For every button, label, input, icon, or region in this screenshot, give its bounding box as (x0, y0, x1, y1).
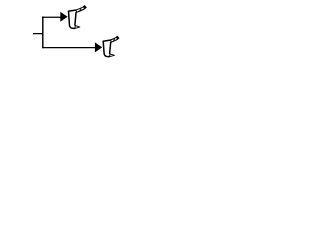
S2 foot tail (110, 54, 115, 57)
S2 roof (103, 40, 110, 41)
S2 pennant slit (111, 38, 116, 41)
S2 pole right edge (110, 42, 111, 53)
wire input stub (33, 33, 43, 35)
S1 pennant ribbon (76, 6, 86, 11)
wire bottom arm (42, 47, 95, 49)
S1 pennant slit (77, 8, 84, 11)
S1 pole right edge (75, 13, 76, 26)
arrowhead A2 (95, 42, 102, 52)
S1 roof (69, 10, 76, 11)
arrowhead A1 (60, 12, 67, 22)
symbol S2 flag glyph (103, 37, 118, 57)
S2 pole left edge and bottom curve (103, 41, 109, 56)
wire top arm (42, 16, 61, 18)
S1 pennant fold (80, 9, 81, 11)
background (0, 0, 150, 71)
S1 pole left edge and bottom curve (69, 11, 75, 28)
S1 foot tail (75, 26, 80, 29)
wire vertical bus (42, 16, 44, 48)
S2 pennant ribbon (111, 37, 119, 41)
S2 pennant fold (113, 39, 116, 40)
symbol S1 flag glyph (69, 6, 86, 28)
